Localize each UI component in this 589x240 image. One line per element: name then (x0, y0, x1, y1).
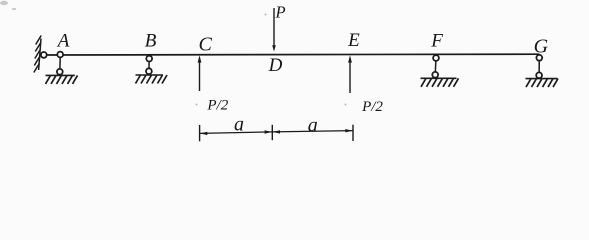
ground hatching at A (46, 75, 78, 84)
pin F bottom (432, 72, 438, 78)
dimension tick at C (199, 125, 201, 141)
reaction arrow P/2 at E (349, 60, 351, 93)
svg-text:F: F (430, 31, 443, 52)
ground at G (526, 78, 558, 80)
reaction arrow P/2 at C (199, 60, 201, 91)
wall hatching (34, 36, 41, 73)
scan speck left of P/2 at C (196, 104, 198, 106)
svg-text:P: P (275, 2, 286, 21)
pin G bottom (536, 72, 542, 78)
link G vertical (538, 58, 540, 76)
dim arrowhead right at E (345, 129, 352, 132)
svg-text:C: C (199, 34, 213, 56)
pin F top (433, 55, 439, 61)
dim arrowhead right at D (265, 130, 272, 133)
pin B bottom (146, 68, 152, 74)
svg-text:P/2: P/2 (361, 99, 383, 115)
ground at F (421, 77, 457, 79)
pin G top (536, 55, 542, 61)
ground hatching at F (421, 78, 459, 87)
scan smudge top-left corner (0, 1, 16, 10)
pin at wall (41, 52, 47, 58)
link B vertical (148, 59, 150, 72)
scan speck left of P (265, 14, 267, 16)
pin A (57, 52, 63, 58)
scan speck left of P/2 at E (345, 104, 347, 106)
svg-text:A: A (56, 31, 70, 52)
pin B top (146, 56, 152, 62)
dimension line C-D (200, 132, 273, 134)
load arrow P at D (273, 8, 275, 46)
link A vertical (59, 55, 62, 72)
dimension line D-E (272, 131, 353, 132)
ground at B (136, 74, 164, 76)
svg-text:P/2: P/2 (206, 97, 228, 113)
dimension tick at E (352, 125, 354, 141)
dimension tick at D (271, 125, 273, 140)
wall at A (39, 39, 41, 71)
svg-text:E: E (347, 30, 360, 51)
dim arrowhead left at D (273, 130, 280, 133)
link F vertical (434, 58, 437, 75)
pin A bottom (57, 69, 63, 75)
svg-text:G: G (534, 36, 549, 58)
svg-text:a: a (308, 115, 318, 137)
svg-text:D: D (268, 55, 283, 76)
ground hatching at B (136, 75, 168, 84)
ground at A (46, 74, 75, 76)
svg-text:B: B (145, 31, 157, 52)
dim arrowhead left at C (200, 132, 207, 135)
svg-text:a: a (234, 113, 244, 135)
beam A-G (41, 53, 540, 56)
ground hatching at G (526, 79, 558, 88)
